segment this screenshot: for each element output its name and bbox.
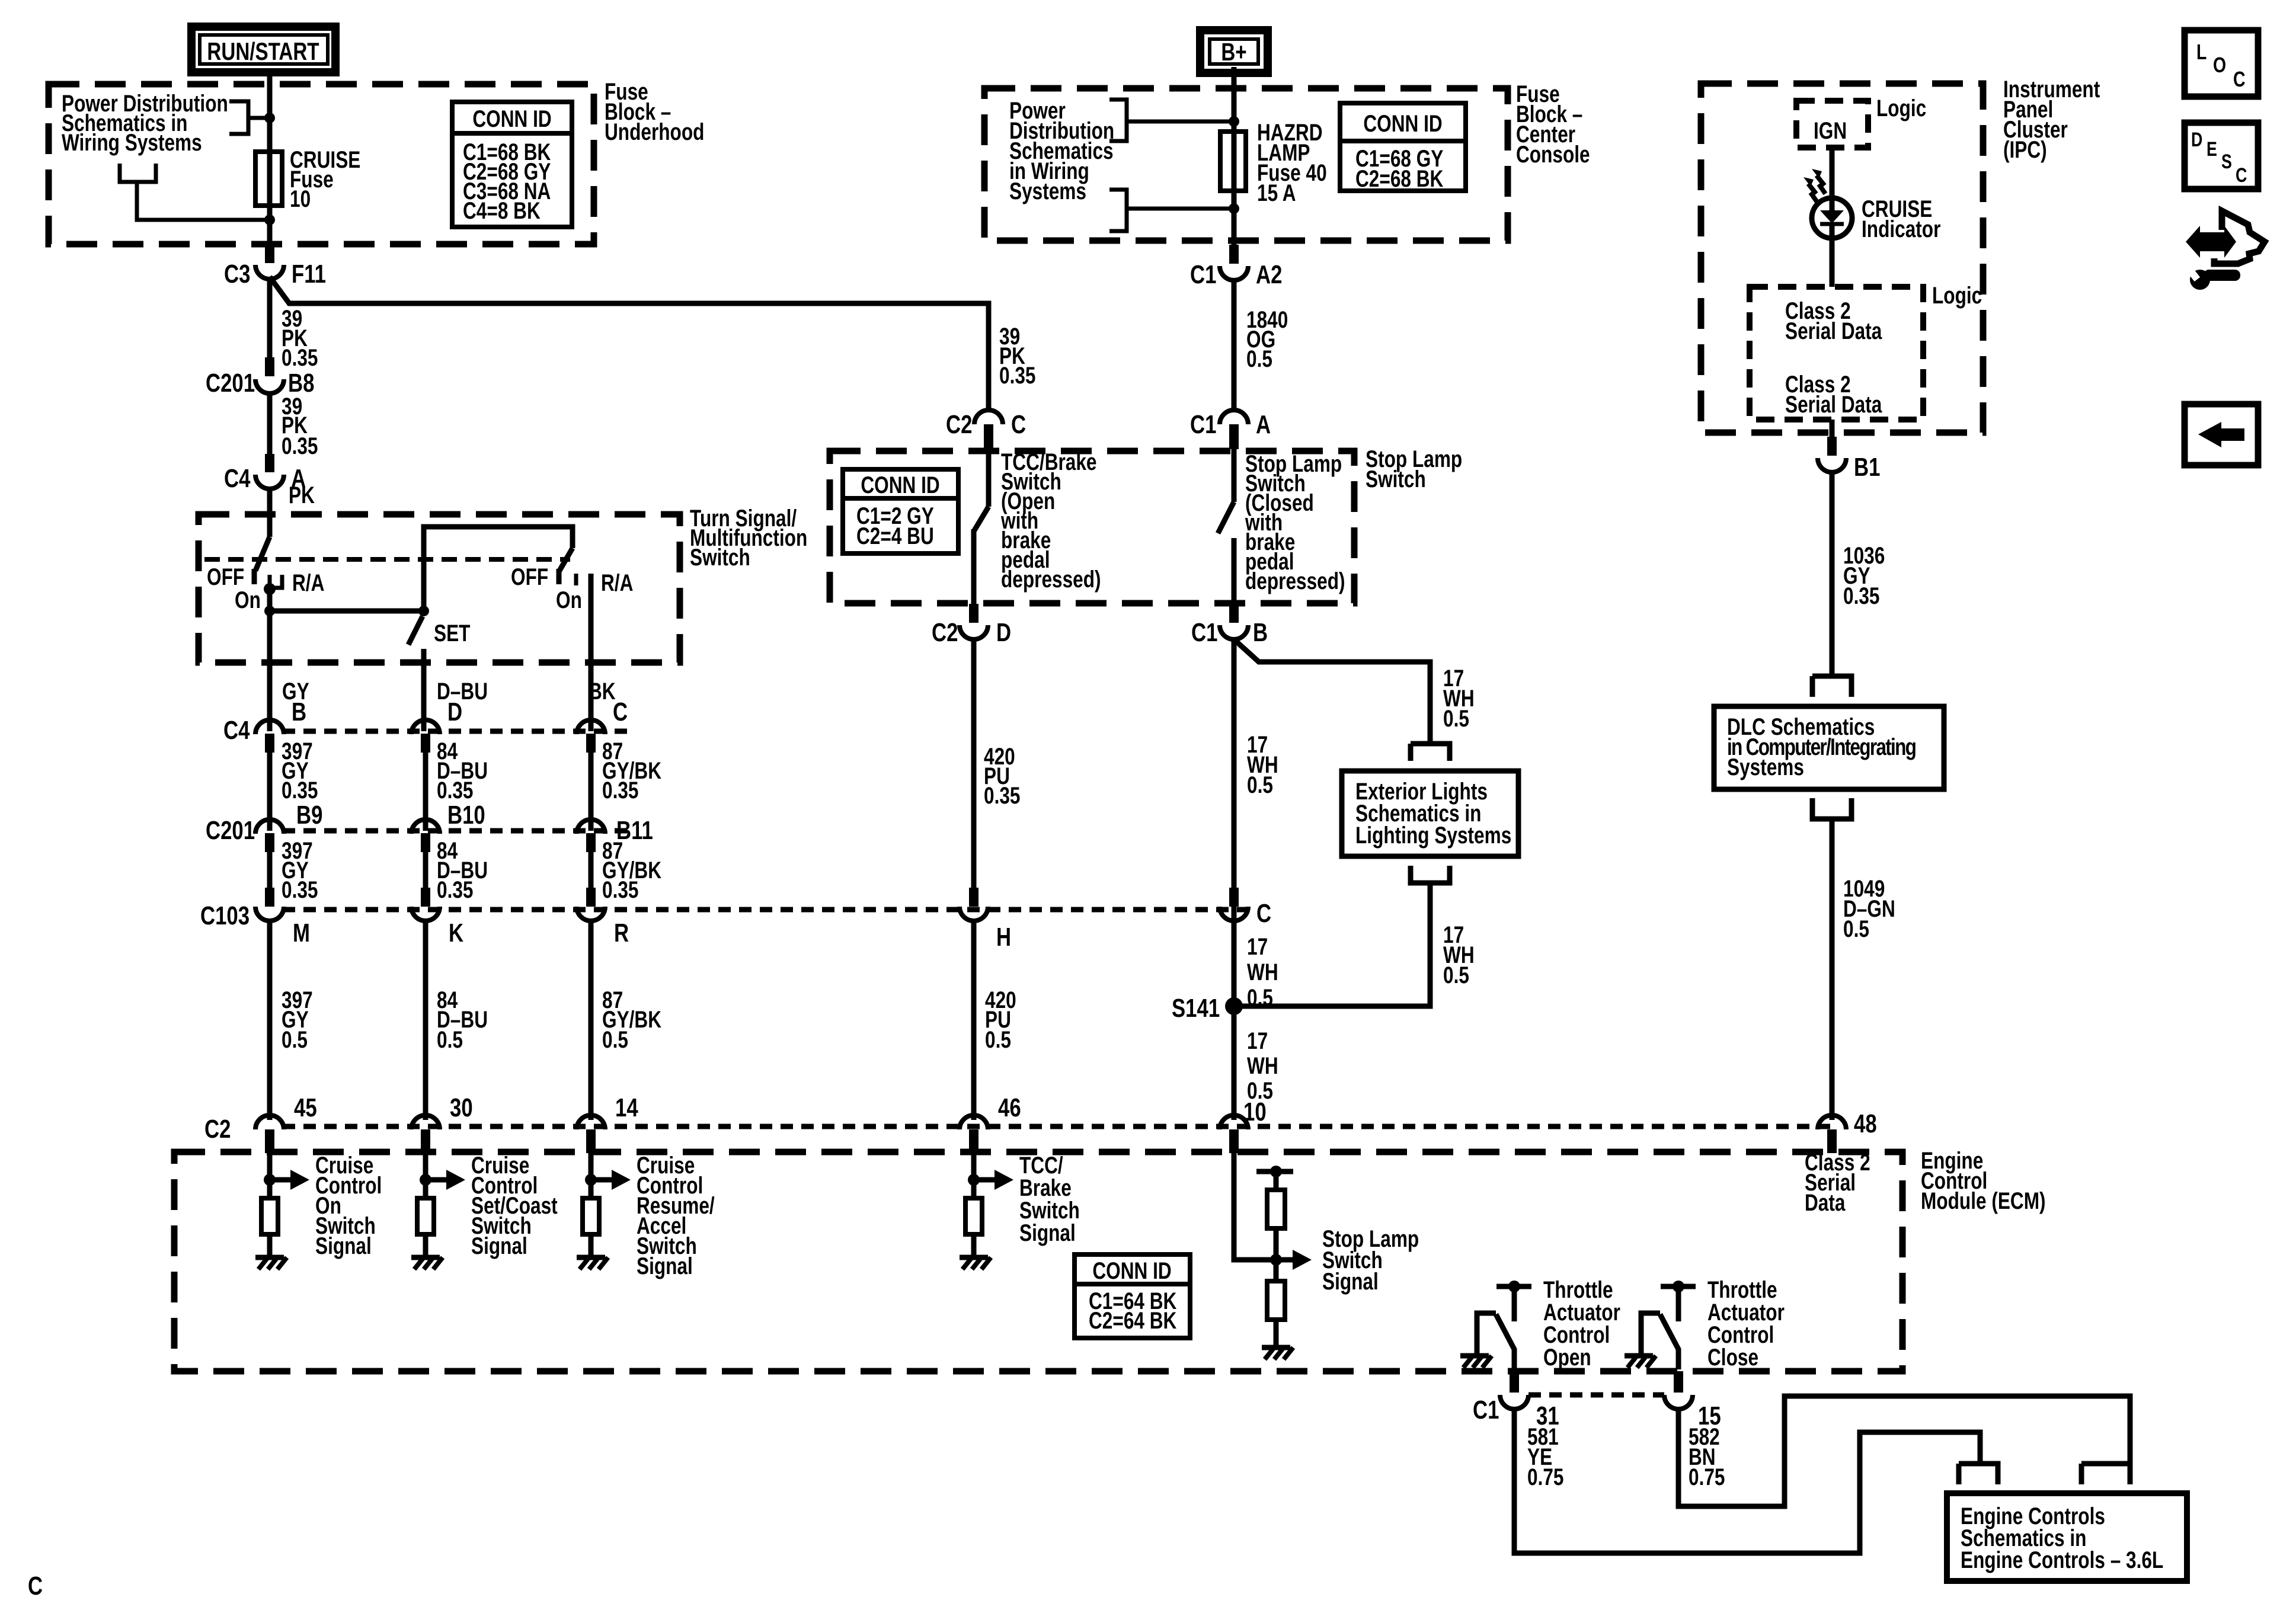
tcc brake branch: wire + node + arrow [968, 1153, 1013, 1198]
svg-text:BK: BK [589, 677, 616, 704]
svg-text:B: B [1253, 618, 1268, 647]
svg-text:(IPC): (IPC) [2003, 136, 2047, 162]
off-page bracket above DLC box [1812, 676, 1851, 697]
icon LOC box [2185, 30, 2258, 97]
off-page bracket above Exterior Lights box [1411, 744, 1450, 761]
wire C4/A into turn signal switch [267, 486, 273, 537]
svg-text:Signal: Signal [1019, 1219, 1076, 1246]
svg-text:0.5: 0.5 [1443, 961, 1469, 988]
LED cruise indicator [1812, 198, 1852, 238]
wire 582 BN path [1678, 1396, 2130, 1506]
stub below C201-B9 [265, 833, 274, 852]
connector arc C2-14 [577, 1115, 605, 1129]
label Class 2 Serial Data (lower) [1785, 370, 1882, 417]
svg-text:0.35: 0.35 [999, 361, 1035, 388]
svg-text:Serial Data: Serial Data [1785, 391, 1882, 417]
stub below C2-30 [421, 1129, 430, 1153]
fuse block underhood dashed box [49, 84, 594, 244]
power label RUN/START [191, 27, 335, 72]
ground (cruise on) [255, 1257, 287, 1269]
connector arc C103-H [960, 907, 988, 921]
svg-text:30: 30 [450, 1093, 473, 1122]
off-page bracket to Power Distribution (upper) [229, 101, 270, 134]
wire C1/A2 down [1232, 278, 1237, 411]
stop lamp switch closed blade [1218, 449, 1234, 604]
svg-text:Logic: Logic [1932, 281, 1982, 308]
wire label 39 PK 0.35 (above C201) [282, 305, 318, 370]
wire On contact down through box [267, 588, 273, 731]
wire label 39 PK 0.35 (TCC feed) [999, 322, 1035, 388]
svg-text:Console: Console [1516, 140, 1590, 167]
svg-text:17: 17 [1247, 933, 1268, 959]
resistor (resume/accel) [583, 1198, 599, 1234]
svg-text:Underhood: Underhood [605, 118, 704, 145]
svg-text:RUN/START: RUN/START [207, 38, 319, 66]
svg-text:0.35: 0.35 [282, 776, 318, 803]
wire label 397 GY 0.35 (lower) [282, 837, 318, 902]
throttle actuator open: switch from ground [1477, 1313, 1514, 1369]
svg-text:15 A: 15 A [1257, 179, 1296, 206]
svg-text:0.35: 0.35 [282, 876, 318, 902]
svg-text:Data: Data [1805, 1189, 1846, 1215]
svg-text:0.5: 0.5 [1247, 984, 1273, 1010]
connector arc C4-C [577, 720, 605, 734]
label Turn Signal/Multifunction Switch [690, 504, 807, 570]
svg-text:Serial Data: Serial Data [1785, 317, 1882, 344]
connector row C2 (ECM) dashed line [283, 1124, 1832, 1129]
wire LED to class2 logic box [1830, 238, 1835, 287]
svg-text:B: B [292, 697, 306, 726]
fuse block center console dashed box [984, 88, 1508, 241]
svg-text:C: C [28, 1571, 43, 1601]
wire label 1036 GY 0.35 [1843, 542, 1885, 609]
resistor (tcc brake) [965, 1198, 982, 1234]
stub below C2-14 [586, 1129, 596, 1153]
connector C1 pin A (stop lamp switch) [1190, 410, 1271, 439]
wire 397 GY segment C103 to ECM [267, 920, 273, 1120]
wire label 1840 OG 0.5 [1246, 306, 1288, 372]
icon arrow and wrench (vehicle) [2186, 211, 2265, 290]
wire 87 GY/BK segment C4 to C201 [589, 748, 594, 831]
SET switch blade [408, 616, 423, 645]
svg-text:C2=68 BK: C2=68 BK [1355, 165, 1443, 191]
label Throttle Actuator Control Close [1707, 1276, 1785, 1370]
wire C201 to C4 [267, 391, 273, 454]
wire to ground (cruise on) [267, 1234, 273, 1256]
TCC brake switch open blade [974, 449, 989, 604]
connector arc C201-B10 [411, 820, 440, 834]
wire 84 D-BU segment C201 to C103 [423, 847, 428, 888]
wire label 420 PU 0.5 [985, 986, 1016, 1052]
connector arc C201-B9 [255, 820, 284, 834]
cruise set/coast branch: wire + node + arrow [420, 1153, 465, 1198]
svg-text:B10: B10 [447, 801, 485, 830]
svg-text:E: E [2207, 138, 2217, 161]
icon back arrow box [2185, 404, 2258, 465]
wire below SET switch [421, 649, 427, 731]
svg-text:CONN ID: CONN ID [1092, 1257, 1171, 1283]
svg-text:C2: C2 [204, 1115, 231, 1144]
wire B1 down to DLC bracket [1830, 470, 1835, 676]
label Instrument Panel Cluster (IPC) [2003, 75, 2100, 162]
wire IGN to LED [1830, 148, 1835, 199]
svg-text:0.5: 0.5 [1843, 915, 1869, 942]
resistor (cruise on) [261, 1198, 278, 1234]
connector row C1 dashed (throttle) [1528, 1393, 1664, 1398]
ground (throttle open) [1460, 1356, 1492, 1368]
stub below C2-10 [1229, 1129, 1239, 1153]
label Power Distribution Schematics in Wiring Systems [62, 89, 228, 155]
svg-text:17: 17 [1247, 1027, 1268, 1054]
ground (tcc brake) [960, 1257, 991, 1269]
svg-text:B1: B1 [1854, 453, 1880, 482]
connector arc C2-48 [1818, 1115, 1846, 1129]
connector row C4 dashed line [283, 729, 628, 734]
svg-text:C1: C1 [1473, 1395, 1499, 1425]
stub below ECM box into C1/31 [1510, 1371, 1519, 1393]
wire resistor to junction [1274, 1228, 1279, 1281]
svg-text:D: D [2191, 129, 2202, 151]
stub below box into C2/D [969, 604, 978, 623]
wire from C1/B down to stop lamp branch [1234, 637, 1430, 1120]
label Power Distribution Schematics in Wiring Systems (center console) [1009, 97, 1114, 204]
connector arc C2-46 [960, 1115, 988, 1129]
svg-text:C2=64 BK: C2=64 BK [1089, 1307, 1176, 1333]
cruise on branch: wire + node + arrow [264, 1153, 309, 1198]
wire 87 GY/BK segment C103 to ECM [589, 920, 594, 1120]
wire label 87 GY/BK 0.5 [602, 986, 661, 1052]
IGN logic dashed box [1796, 101, 1868, 148]
svg-text:0.5: 0.5 [602, 1026, 628, 1052]
wire stub into connector C201 [265, 357, 274, 376]
svg-text:Logic: Logic [1876, 94, 1926, 121]
svg-text:0.5: 0.5 [985, 1026, 1011, 1052]
wire label 87 GY/BK 0.35 (upper) [602, 737, 661, 803]
svg-text:14: 14 [615, 1093, 638, 1122]
svg-text:46: 46 [998, 1093, 1021, 1122]
wire 420 PU from H to ECM [971, 920, 977, 1120]
wire label 17 WH 0.5 (right of exterior wire) [1443, 921, 1475, 988]
svg-text:C2=4 BU: C2=4 BU [856, 522, 934, 549]
svg-text:IGN: IGN [1814, 117, 1847, 143]
ground (stop lamp branch) [1262, 1347, 1293, 1359]
wire to ground (stop lamp branch) [1274, 1320, 1279, 1346]
connector arc C4-B [255, 720, 284, 734]
connector C1 pin A2 [1190, 260, 1282, 289]
svg-text:0.35: 0.35 [437, 776, 473, 803]
svg-text:C2: C2 [932, 618, 958, 647]
off-page bracket to Power Distribution (lower) [120, 164, 270, 220]
svg-text:C3: C3 [224, 260, 250, 289]
resistor (cruise set/coast) [417, 1198, 434, 1234]
CONN ID table (underhood fuse block) [452, 102, 572, 227]
label CRUISE Indicator [1862, 195, 1940, 242]
svg-text:0.5: 0.5 [437, 1026, 463, 1052]
label Stop Lamp Switch (section) [1366, 445, 1462, 492]
wire 397 GY segment C4 to C201 [267, 748, 273, 831]
ground (set/coast) [411, 1257, 443, 1269]
svg-text:C: C [1256, 899, 1271, 928]
cruise resume branch: wire + node + arrow [585, 1153, 631, 1198]
stub below C4-C [586, 734, 596, 753]
svg-text:C1: C1 [1191, 618, 1217, 647]
svg-text:Signal: Signal [1322, 1267, 1379, 1294]
junction node to SET feed [264, 606, 275, 616]
wire DLC to ECM pin 48 [1830, 819, 1835, 1120]
svg-text:CONN ID: CONN ID [1363, 110, 1442, 136]
wire 397 GY segment C201 to C103 [267, 847, 273, 888]
stub above C103-C [1229, 888, 1239, 907]
stub below C2-45 [265, 1129, 274, 1153]
ground (throttle close) [1625, 1356, 1656, 1368]
wire label 39 PK 0.35 (above C4/A) [282, 392, 318, 459]
junction node (stop lamp branch) [1270, 1254, 1282, 1266]
junction node at SET [418, 606, 429, 616]
wire stub into connector C4 [265, 454, 274, 472]
svg-text:WH: WH [1247, 1052, 1278, 1078]
svg-text:CONN ID: CONN ID [861, 471, 939, 498]
wire label 1049 D-GN 0.5 [1843, 875, 1895, 942]
wire from RUN/START to fuse block [267, 72, 273, 119]
svg-text:depressed): depressed) [1245, 567, 1345, 594]
svg-text:S141: S141 [1172, 994, 1220, 1023]
stub above C103-H [969, 888, 978, 907]
internal supply T (stop lamp branch) [1256, 1166, 1293, 1190]
wire R/A contact down (right switch) [589, 574, 594, 731]
connector arc C2-45 [255, 1115, 284, 1129]
junction node below HAZRD fuse [1229, 203, 1239, 214]
svg-text:depressed): depressed) [1001, 565, 1101, 592]
svg-text:C1: C1 [1190, 260, 1216, 289]
stub below C4-D [421, 734, 430, 753]
svg-text:M: M [293, 918, 310, 948]
junction node on wire below RUN/START [264, 113, 275, 123]
connector arc C103-R [577, 907, 605, 921]
stub below C2-46 [969, 1129, 978, 1153]
CONN ID table (ECM) [1075, 1254, 1190, 1338]
svg-text:C103: C103 [200, 901, 250, 930]
svg-text:C: C [2233, 68, 2246, 91]
stop lamp signal branch main wire [1234, 1153, 1273, 1260]
svg-text:0.5: 0.5 [1246, 345, 1272, 372]
SET feed line [270, 609, 424, 614]
wire label 17 WH 0.5 (above S141) [1247, 933, 1278, 1010]
svg-text:C201: C201 [206, 369, 255, 398]
connector arc C103-K [411, 907, 440, 921]
connector arc C201-B11 [577, 820, 605, 834]
svg-text:D: D [996, 618, 1011, 647]
svg-text:Signal: Signal [637, 1252, 693, 1279]
reference box Exterior Lights Schematics in Lighting Systems [1342, 771, 1518, 856]
svg-text:B9: B9 [296, 801, 322, 830]
svg-text:Switch: Switch [690, 543, 750, 570]
connector arc C103-C (stop lamp column) [1220, 907, 1248, 921]
stub below C201-B11 [586, 833, 596, 852]
svg-text:R/A: R/A [292, 569, 324, 596]
svg-text:On: On [235, 586, 261, 613]
svg-text:R/A: R/A [601, 569, 633, 596]
connector C4 pin A [224, 464, 306, 493]
wire label 87 GY/BK 0.35 (lower) [602, 837, 661, 902]
svg-text:WH: WH [1247, 958, 1278, 985]
connector row C103 dashed line [283, 907, 1251, 913]
SET riser to right switch feed [424, 527, 573, 611]
power label B+ [1200, 30, 1268, 73]
label Class 2 Serial Data (upper) [1785, 297, 1882, 344]
mechanical coupling dashed line [204, 557, 570, 562]
svg-text:0.5: 0.5 [282, 1026, 308, 1052]
svg-text:On: On [556, 586, 582, 613]
off-page bracket right (engine controls) [2081, 1464, 2130, 1484]
svg-text:0.35: 0.35 [437, 876, 473, 902]
connector arc C103-M [255, 907, 284, 921]
connector arc C4-D [411, 720, 440, 734]
svg-text:0.5: 0.5 [1247, 771, 1273, 798]
svg-text:F11: F11 [292, 260, 326, 289]
svg-text:A: A [1256, 410, 1271, 439]
off-page bracket lower (center console) [1109, 190, 1234, 231]
svg-text:C2: C2 [946, 410, 972, 439]
stub below C1-A [1229, 424, 1239, 449]
svg-text:45: 45 [294, 1093, 317, 1122]
resistor upper (stop lamp branch) [1267, 1190, 1285, 1228]
svg-text:A2: A2 [1256, 260, 1282, 289]
off-page bracket left (engine controls) [1959, 1464, 1998, 1484]
wire from Exterior Lights down to S141 [1236, 883, 1430, 1006]
fuse HAZRD LAMP Fuse 40 15 A [1220, 119, 1327, 209]
wire label 17 WH 0.5 (to exterior lights) [1443, 664, 1475, 731]
connector C2 pin C (TCC/brake feed) [946, 410, 1026, 439]
stub below C2-48 [1827, 1129, 1837, 1153]
wire 87 GY/BK segment C201 to C103 [589, 847, 594, 888]
connector C201 pin B8 [206, 369, 314, 398]
svg-text:Engine Controls – 3.6L: Engine Controls – 3.6L [1961, 1546, 2163, 1573]
label Throttle Actuator Control Open [1543, 1276, 1620, 1370]
wire from B+ into center console fuse block [1232, 67, 1237, 122]
label Stop Lamp Switch (Closed with brake pedal depressed) [1245, 450, 1345, 594]
svg-text:D: D [447, 697, 462, 726]
label Cruise Control Resume/ Accel Switch Signal [637, 1151, 715, 1279]
cruise on-off switch blade (left) [254, 537, 270, 584]
connector arc C2-10 [1220, 1115, 1248, 1129]
wire label 581 YE 0.75 [1527, 1423, 1563, 1490]
wire label 84 D-BU 0.35 (upper) [437, 737, 488, 803]
LED emission arrows [1803, 169, 1825, 202]
svg-text:Systems: Systems [1727, 753, 1804, 780]
stub below C4-B [265, 734, 274, 753]
CONN ID table (center console) [1340, 103, 1466, 192]
svg-text:0.35: 0.35 [282, 344, 318, 370]
svg-text:L: L [2196, 40, 2207, 64]
turn signal / multifunction switch dashed box [199, 514, 680, 662]
svg-text:C201: C201 [206, 816, 255, 845]
svg-text:Switch: Switch [1366, 465, 1426, 492]
svg-text:Open: Open [1543, 1343, 1591, 1370]
svg-text:0.75: 0.75 [1689, 1463, 1725, 1490]
connector row C201 dashed line [283, 828, 628, 834]
wire label 84 D-BU 0.5 [437, 986, 488, 1052]
connector C1 pin 31 [1473, 1395, 1559, 1430]
wire 420 PU from C2/D to C103 H [971, 637, 977, 888]
reference box Engine Controls Schematics in Engine Controls - 3.6L [1947, 1493, 2187, 1581]
connector C1 pin B [1191, 618, 1268, 647]
label Fuse Block - Center Console [1516, 80, 1590, 167]
off-page bracket below DLC box [1812, 798, 1851, 819]
reference box DLC Schematics in Computer/Integrating Systems [1714, 706, 1944, 789]
off-page bracket below Exterior Lights box [1411, 866, 1450, 883]
svg-text:C: C [1011, 410, 1026, 439]
svg-text:C1: C1 [1190, 410, 1216, 439]
svg-text:Indicator: Indicator [1862, 215, 1940, 242]
label Cruise Control Set/Coast Switch Signal [471, 1151, 558, 1259]
CONN ID table (stop lamp switch) [843, 469, 958, 553]
svg-text:Wiring Systems: Wiring Systems [62, 129, 202, 155]
junction node above C3 [264, 215, 275, 225]
svg-text:0.35: 0.35 [602, 776, 638, 803]
throttle actuator close: T contact [1661, 1281, 1696, 1321]
wire label 397 GY 0.35 (upper) [282, 737, 318, 803]
stub above C103-K [421, 888, 430, 907]
connector pin 15 [1664, 1395, 1721, 1430]
svg-text:48: 48 [1854, 1109, 1877, 1138]
wire stub into connector C1/A2 [1229, 209, 1239, 264]
svg-text:Module (ECM): Module (ECM) [1921, 1187, 2046, 1214]
wire to ground (set/coast) [423, 1234, 428, 1256]
svg-text:PK: PK [289, 481, 315, 508]
svg-text:C: C [2236, 164, 2247, 187]
wire 84 D-BU segment C103 to ECM [423, 920, 428, 1120]
label Class 2 Serial Data (ECM pin 48) [1805, 1148, 1870, 1215]
svg-text:B+: B+ [1221, 39, 1246, 66]
svg-text:Systems: Systems [1009, 177, 1086, 204]
svg-text:Lighting Systems: Lighting Systems [1355, 821, 1511, 848]
svg-text:SET: SET [434, 619, 470, 646]
wire 581 YE path [1514, 1407, 1980, 1553]
svg-text:0.35: 0.35 [602, 876, 638, 902]
svg-text:R: R [614, 918, 629, 948]
svg-text:S: S [2221, 151, 2232, 173]
arrow (stop lamp branch) [1276, 1250, 1312, 1270]
engine control module dashed box [174, 1152, 1902, 1371]
wire label 17 WH 0.5 (below S141) [1247, 1027, 1278, 1103]
wire to ground (tcc brake) [971, 1234, 977, 1256]
svg-text:0.35: 0.35 [984, 782, 1020, 808]
instrument panel cluster dashed box [1701, 84, 1983, 433]
svg-text:H: H [996, 923, 1011, 952]
svg-text:0.75: 0.75 [1527, 1463, 1563, 1490]
svg-text:OFF: OFF [511, 563, 548, 590]
icon DESC box [2185, 123, 2258, 189]
connector pin B1 [1818, 453, 1880, 482]
svg-text:C4=8 BK: C4=8 BK [463, 197, 541, 223]
wire label 582 BN 0.75 [1689, 1423, 1725, 1490]
stop lamp switch assembly dashed box [830, 451, 1354, 603]
svg-text:0.35: 0.35 [282, 432, 318, 459]
svg-text:CONN ID: CONN ID [472, 105, 551, 132]
stub above C103-M [265, 888, 274, 907]
label Stop Lamp Switch Signal [1322, 1225, 1419, 1294]
wire stub into connector C3 [265, 220, 274, 263]
resistor lower (stop lamp branch) [1267, 1281, 1285, 1320]
wire label 420 PU 0.35 [984, 742, 1020, 808]
label Engine Control Module (ECM) [1921, 1147, 2046, 1214]
svg-text:0.35: 0.35 [1843, 582, 1879, 609]
ground (resume/accel) [577, 1257, 608, 1269]
svg-text:Signal: Signal [471, 1232, 527, 1259]
connector C2 pin D [932, 618, 1011, 647]
contact tick (right switch) [574, 574, 578, 585]
wire label 17 WH 0.5 (stop lamp column) [1247, 731, 1278, 798]
